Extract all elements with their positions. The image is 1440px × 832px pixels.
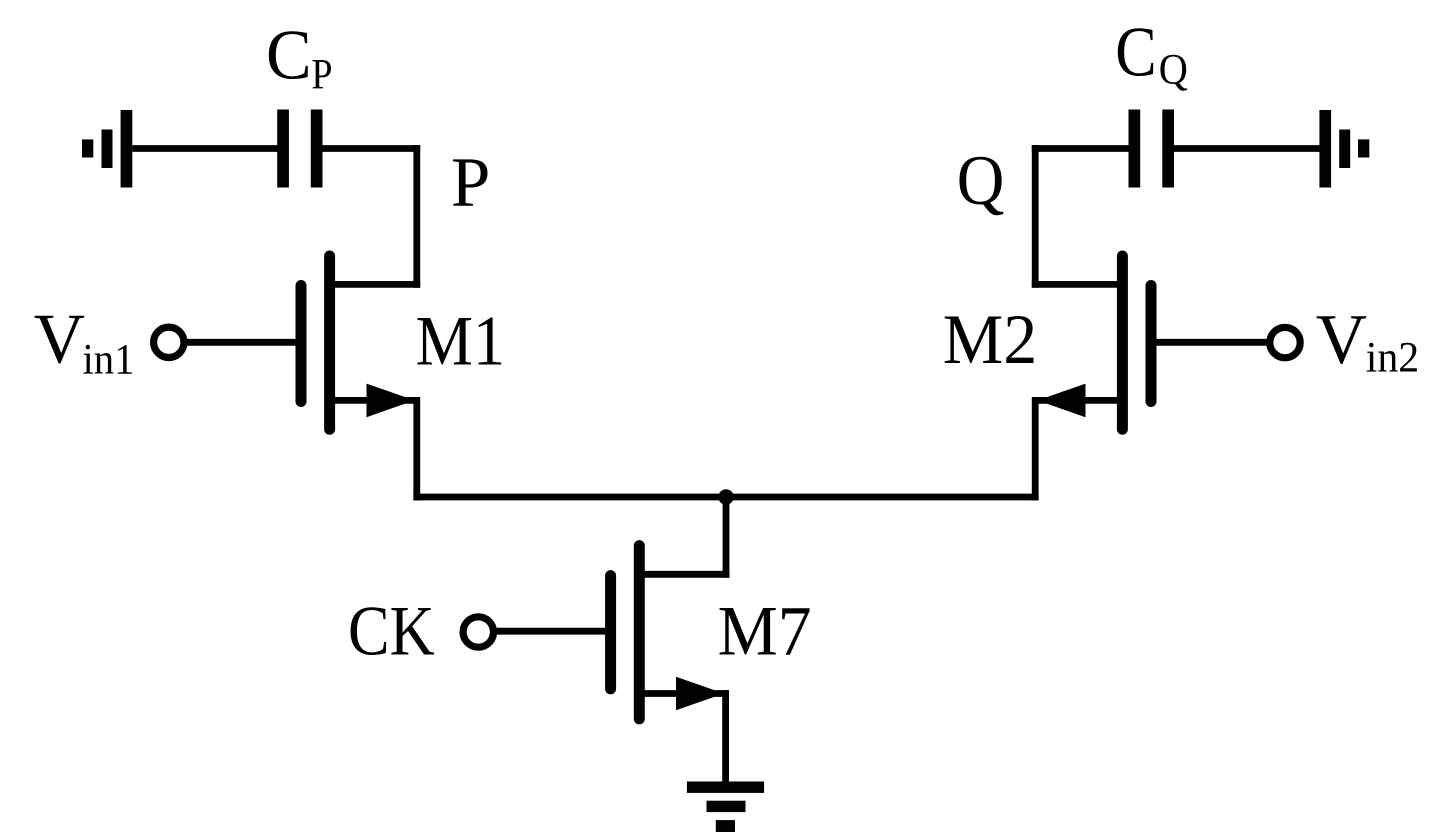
transistor M1 xyxy=(301,256,330,429)
svg-text:M2: M2 xyxy=(943,301,1038,379)
value label CQ xyxy=(1115,14,1188,94)
M2 channel bar xyxy=(1117,256,1128,429)
wire Vin1 to M1 gate xyxy=(185,339,296,346)
AC-ground rail symbol right xyxy=(1319,110,1369,188)
M1 source arrow xyxy=(367,384,415,418)
junction dot tail node xyxy=(718,489,733,504)
M2 source arrow xyxy=(1038,384,1086,418)
terminal circle Vin2 xyxy=(1270,327,1300,357)
M2 gate bar xyxy=(1146,286,1157,402)
capacitor CQ xyxy=(1129,110,1175,188)
wire M2 source down to tail rail xyxy=(1035,400,1122,500)
ground xyxy=(687,782,764,832)
svg-text:CK: CK xyxy=(348,592,435,670)
svg-text:V: V xyxy=(34,301,85,379)
terminal circle CK xyxy=(463,617,493,647)
wire M7 source down to ground xyxy=(722,690,729,784)
V_in2 label xyxy=(1316,301,1420,381)
svg-text:C: C xyxy=(266,17,312,95)
wire tail rail xyxy=(413,494,1038,501)
terminal circle Vin1 xyxy=(154,327,184,357)
wire M1 source down to tail rail xyxy=(330,400,417,500)
value label CP xyxy=(266,17,333,99)
wire junction down to M7 drain level xyxy=(723,497,730,578)
svg-text:V: V xyxy=(1316,301,1367,379)
transistor M2 xyxy=(1122,256,1151,429)
M1 channel bar xyxy=(324,256,335,429)
svg-text:M7: M7 xyxy=(718,592,812,670)
AC-ground rail symbol left xyxy=(82,110,132,188)
wire M7 source xyxy=(639,690,729,697)
wire left AC-ground to CP left plate xyxy=(132,145,278,152)
capacitor CP xyxy=(277,110,322,188)
wire M2 gate to Vin2 xyxy=(1157,339,1269,346)
wire node P vertical xyxy=(413,145,420,288)
M1 gate bar xyxy=(296,286,307,402)
svg-text:Q: Q xyxy=(1159,47,1188,94)
wire node Q to M2 drain xyxy=(1032,281,1122,288)
M7 gate bar xyxy=(605,576,616,689)
svg-text:M1: M1 xyxy=(416,303,506,381)
wire CK to M7 gate xyxy=(494,628,605,635)
svg-text:P: P xyxy=(451,144,491,222)
wire node Q vertical xyxy=(1032,145,1039,288)
wire node P to M1 drain xyxy=(330,281,420,288)
svg-text:C: C xyxy=(1115,14,1156,92)
wire CQ right plate to right AC-ground xyxy=(1174,145,1320,152)
wire CQ left plate to node Q xyxy=(1032,145,1130,152)
M7 source arrow xyxy=(676,677,724,711)
svg-text:P: P xyxy=(311,52,332,99)
svg-text:in1: in1 xyxy=(83,337,135,384)
wire M7 drain xyxy=(639,571,729,578)
M7 channel bar xyxy=(634,546,645,719)
V_in1 label xyxy=(34,301,135,384)
transistor M7 xyxy=(611,546,640,719)
svg-text:Q: Q xyxy=(957,142,1005,220)
svg-text:in2: in2 xyxy=(1366,335,1420,382)
wire CP right plate to node P xyxy=(323,145,421,152)
